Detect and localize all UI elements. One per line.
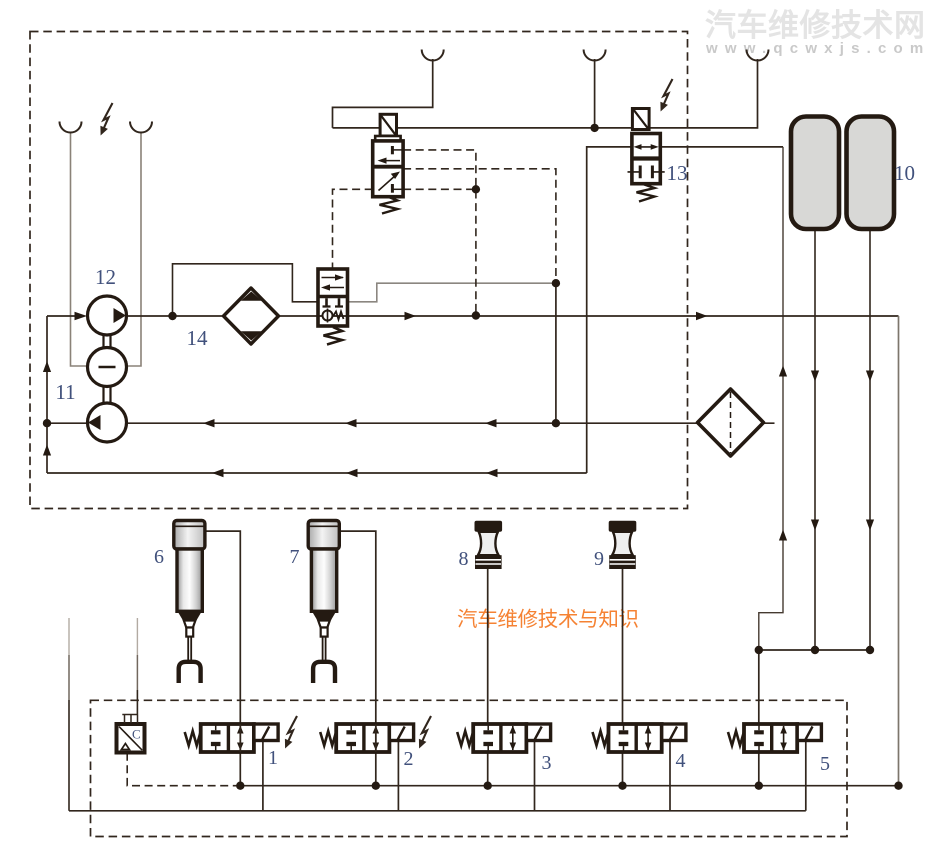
wire: main pressure line [127,315,899,317]
drive shaft upper [104,335,111,348]
engine motor [88,348,127,387]
node inlet riser [43,419,51,427]
arrow return2 a [212,469,224,477]
node lineA v3 [484,782,492,790]
arrow main line b [696,312,708,320]
wire: intake exhaust B stem [126,133,141,367]
wire: valve13 branch to delivery risers [759,147,783,650]
air tank 10a [791,117,839,230]
wire: pump inlet riser [46,316,48,473]
wire: coupler9 to valve4 [622,569,624,786]
wire: cylinder7 to valve2 [340,531,376,786]
node lineA right [894,782,902,790]
arrow tankA b [811,520,819,531]
feed through valve 2 [375,724,377,752]
solenoid valve 3 [457,724,550,752]
arrow tankA a [811,371,819,382]
lightning top left [100,103,112,136]
svg-text:7: 7 [290,546,300,568]
air tank 10b [847,117,895,230]
wire: valve5 feed drop [758,650,760,786]
wire: valve5 outlet [805,740,807,810]
wire: exhaust C down to supply manifold [333,59,433,128]
node bus a [755,646,763,654]
drive shaft lower [104,387,111,404]
node bus c [866,646,874,654]
svg-text:10: 10 [894,161,915,185]
wire: manifold line B [69,810,806,812]
wire: controller pilot dashed [127,753,240,786]
node main-regulator loop [168,312,176,320]
unloader pilot valve [373,114,403,213]
svg-text:12: 12 [95,265,116,289]
wire: exhaust D stem [594,59,596,128]
svg-text:汽车维修技术与知识: 汽车维修技术与知识 [457,608,639,631]
exhaust port E [747,50,769,61]
node bus b [811,646,819,654]
wire: tank B stem [869,229,871,650]
solenoid valve 2 [320,724,413,752]
wire: unloader pilot riser [555,283,557,423]
svg-text:3: 3 [542,752,552,774]
lightning valve1 [285,716,297,749]
arrow tankB b [866,520,874,531]
arrow return1 c [485,419,497,427]
coupler 8 [475,521,503,569]
svg-text:1: 1 [268,747,278,769]
arrow riser783 b [779,530,787,541]
filter 14 [224,288,279,344]
pilot dashed line 1 [403,150,476,316]
exhaust port D [584,50,606,61]
exhaust port A [60,122,82,133]
svg-text:汽车维修技术网: 汽车维修技术网 [705,8,926,43]
exhaust port C [422,50,444,61]
svg-text:9: 9 [594,548,604,570]
wire: valve1 outlet [262,740,264,810]
pilot dashed line 3 [333,189,476,269]
wire: return line upper [47,422,775,424]
svg-text:5: 5 [820,753,830,775]
wire: delivery bus [759,649,870,651]
exhaust port B [130,122,152,133]
wire: intake exhaust A stem [71,133,89,367]
lightning valve2 [419,716,431,749]
pump 11 [88,403,127,442]
wire: cylinder6 to valve1 [205,531,240,786]
node lineA v4 [618,782,626,790]
arrow up inlet riser a [43,361,51,372]
node pilot mid [472,185,480,193]
arrow return1 a [203,419,215,427]
arrow main line a [405,312,417,320]
svg-text:4: 4 [676,750,686,772]
solenoid valve 4 [593,724,686,752]
wire: left signal drop [68,618,70,655]
svg-text:14: 14 [187,326,209,350]
wire: controller signal drop [136,618,138,655]
svg-text:13: 13 [667,161,688,185]
pilot dashed line 2 [403,169,556,283]
coupler 9 [609,521,637,569]
arrow into pump 12 [75,312,88,321]
arrow up inlet riser b [43,445,51,456]
svg-text:www.qcwxjs.com: www.qcwxjs.com [705,40,930,57]
cylinder 7 [308,521,339,684]
wire: manifold line A [240,785,898,787]
node W1 exhaust [590,124,598,132]
arrow return2 c [486,469,498,477]
dashed enclosure bottom box [91,700,848,836]
node unloader pilot [552,279,560,287]
svg-text:11: 11 [55,380,75,404]
svg-text:8: 8 [459,548,469,570]
pressure regulator [318,269,348,345]
cylinder 6 [174,521,205,684]
arrow tankB a [866,371,874,382]
solenoid valve 1 [185,724,278,752]
controller C [117,715,145,753]
wire: valve4 outlet [669,740,671,810]
wire: valve13 left line W2 down to return [587,147,783,473]
solenoid valve 13 [628,109,665,202]
node lineA v2 [372,782,380,790]
compressor 12 [88,296,127,335]
solenoid valve 5 [728,724,821,752]
wire: tank A stem [814,229,816,650]
wire: regulator feed loop [173,264,319,316]
dryer filter right [698,389,764,456]
wire: right delivery drop (grey) [898,316,900,786]
wire: supply manifold W1 [333,59,758,128]
lightning valve13 [660,79,672,112]
wire: pump 12 inlet [47,315,84,317]
wire: valve2 outlet [397,740,399,810]
node lineA v5 [755,782,763,790]
node return1 [552,419,560,427]
arrow riser783 a [779,366,787,377]
wire: valve3 outlet [534,740,536,810]
wire: return line lower [47,472,587,474]
feed through valve 1 [239,724,241,752]
svg-text:C: C [132,727,141,742]
node pilot on main [472,311,480,319]
dashed enclosure top box [30,32,688,509]
wire: coupler8 to valve3 [487,569,489,786]
arrow return1 b [345,419,357,427]
node lineA v1 [236,782,244,790]
arrow return2 b [346,469,358,477]
wire: regulator outlet pilot (grey) [348,283,556,302]
svg-text:6: 6 [154,546,164,568]
svg-text:2: 2 [404,748,414,770]
